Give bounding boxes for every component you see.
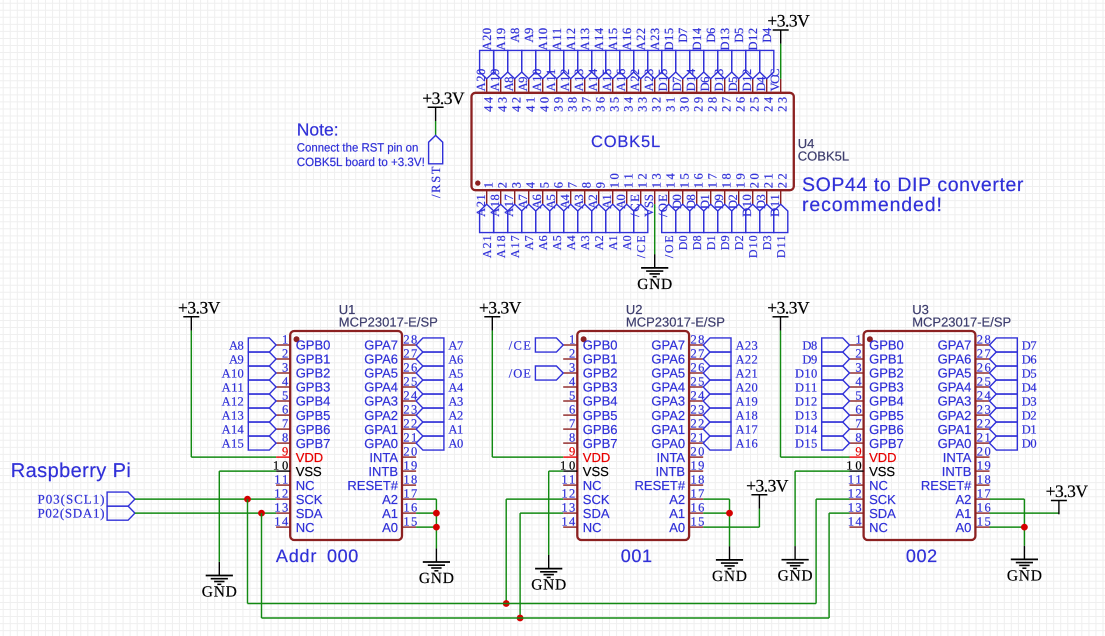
svg-text:P03(SCL1): P03(SCL1) <box>38 492 105 507</box>
svg-text:A20: A20 <box>474 69 488 92</box>
U4 pin 19 (D2) <box>738 190 740 204</box>
svg-text:GPA4: GPA4 <box>938 380 972 395</box>
U2 pin 7 (GPB6) <box>563 428 577 430</box>
svg-text:5: 5 <box>282 389 288 403</box>
U4 pin 22 (D11) <box>780 190 782 204</box>
U3 pin 14 (NC) <box>850 526 864 528</box>
ground GND at U4 pin 13 <box>654 254 656 268</box>
U4 pin 29 (D14) <box>696 79 698 93</box>
U4 pin 40 (A10) <box>542 79 544 93</box>
svg-text:GPA6: GPA6 <box>938 352 972 367</box>
wire U3 SCK drop to SCL bus <box>815 499 817 603</box>
U4 pin 16 (D8) <box>696 190 698 204</box>
ground GND at U2 A2/A1 <box>729 546 731 560</box>
svg-text:2: 2 <box>855 347 861 361</box>
svg-text:GPB5: GPB5 <box>296 408 331 423</box>
svg-text:+3.3V: +3.3V <box>178 297 221 317</box>
wire U1 A2 pin 17 <box>416 498 436 500</box>
svg-text:VSS: VSS <box>296 464 322 479</box>
net label D11 at U4 pin 22 <box>774 204 788 232</box>
svg-text:INTB: INTB <box>655 464 685 479</box>
svg-text:A19: A19 <box>488 69 502 92</box>
svg-text:+3.3V: +3.3V <box>422 88 465 108</box>
svg-text:D9: D9 <box>802 352 817 366</box>
svg-text:D1: D1 <box>698 194 712 209</box>
svg-text:GPA1: GPA1 <box>938 422 972 437</box>
svg-text:A14: A14 <box>592 27 606 50</box>
svg-text:A11: A11 <box>544 69 558 92</box>
svg-text:GPA6: GPA6 <box>651 352 685 367</box>
svg-text:A20: A20 <box>736 380 758 394</box>
svg-text:D6: D6 <box>1022 352 1037 366</box>
wire to U3 VDD pin 9 <box>781 456 850 458</box>
svg-text:20: 20 <box>691 445 705 459</box>
net label A15 at U1 pin 8 <box>248 436 276 450</box>
net label A8 at U1 pin 1 <box>248 338 276 352</box>
svg-text:1: 1 <box>481 182 495 188</box>
net label A17 at U2 pin 22 <box>703 422 731 436</box>
svg-text:Raspberry Pi: Raspberry Pi <box>11 460 131 482</box>
svg-text:A1: A1 <box>606 235 620 250</box>
svg-text:GPA6: GPA6 <box>364 352 398 367</box>
svg-text:D0: D0 <box>676 235 690 250</box>
ground GND at U3 VSS <box>794 546 796 560</box>
svg-text:25: 25 <box>977 375 991 389</box>
U3 pin 11 (NC) <box>850 484 864 486</box>
U1 pin 9 (VDD) <box>276 456 290 458</box>
svg-text:NC: NC <box>583 478 602 493</box>
net label D5 at U3 pin 26 <box>990 366 1018 380</box>
net label D15 at U3 pin 8 <box>822 436 850 450</box>
svg-text:A0: A0 <box>448 436 463 450</box>
wire +3.3V down to U1 VDD row <box>190 331 192 458</box>
svg-text:COBK5L board to +3.3V!: COBK5L board to +3.3V! <box>297 155 425 169</box>
net label A6 at U4 pin 5 <box>536 204 550 232</box>
svg-text:VDD: VDD <box>869 450 896 465</box>
U2 pin 19 (INTB) <box>689 470 703 472</box>
net label A12 at U4 pin 38 <box>564 50 578 78</box>
U2 pin 4 (GPB3) <box>563 386 577 388</box>
svg-text:A6: A6 <box>448 352 463 366</box>
svg-text:D0: D0 <box>1022 436 1037 450</box>
U4 pin 26 (D5) <box>738 79 740 93</box>
svg-text:GPB3: GPB3 <box>583 380 618 395</box>
net label /CE at U4 pin 12 <box>634 204 648 232</box>
net label A21 at U4 pin 1 <box>480 204 494 232</box>
svg-text:D15: D15 <box>662 28 676 51</box>
U4 pin 24 (D4) <box>766 79 768 93</box>
net label D14 at U3 pin 7 <box>822 422 850 436</box>
wire U2 addr GND vertical <box>729 499 731 546</box>
svg-text:D12: D12 <box>795 394 817 408</box>
svg-text:D14: D14 <box>690 27 704 50</box>
svg-text:8: 8 <box>579 182 593 188</box>
net label A1 at U4 pin 10 <box>606 204 620 232</box>
ground GND at U1 VSS <box>218 562 220 576</box>
U1 pin 11 (NC) <box>276 484 290 486</box>
U4 pin 6 (A5) <box>556 190 558 204</box>
svg-text:D2: D2 <box>726 194 740 209</box>
net label A0 at U4 pin 11 <box>620 204 634 232</box>
wire U2 SDA pin 13 <box>520 512 563 514</box>
svg-text:P02(SDA1): P02(SDA1) <box>38 506 105 521</box>
wire U3 A0 pin 15 <box>990 526 1025 528</box>
svg-text:17: 17 <box>691 487 705 501</box>
svg-text:9: 9 <box>569 445 575 459</box>
svg-text:RESET#: RESET# <box>921 478 972 493</box>
svg-text:12: 12 <box>848 487 862 501</box>
U4 pin 34 (A16) <box>626 79 628 93</box>
U2 pin 27 (GPA6) <box>689 358 703 360</box>
svg-text:20: 20 <box>977 445 991 459</box>
svg-text:GPA1: GPA1 <box>364 422 398 437</box>
svg-text:+3.3V: +3.3V <box>1046 481 1089 501</box>
U2 pin 28 (GPA7) <box>689 344 703 346</box>
U2 pin 22 (GPA1) <box>689 428 703 430</box>
svg-text:A0: A0 <box>955 520 971 535</box>
svg-text:8: 8 <box>282 431 288 445</box>
svg-text:D11: D11 <box>795 380 817 394</box>
svg-text:VSS: VSS <box>583 464 609 479</box>
svg-text:17: 17 <box>977 487 991 501</box>
svg-text:MCP23017-E/SP: MCP23017-E/SP <box>339 315 438 330</box>
net label A8 at U4 pin 42 <box>508 50 522 78</box>
U3 pin 1 marker <box>867 336 873 342</box>
svg-text:19: 19 <box>691 459 705 473</box>
U4 pin 44 (A20) <box>486 79 488 93</box>
svg-text:A9: A9 <box>229 352 244 366</box>
svg-text:A10: A10 <box>536 28 550 51</box>
net label D10 at U3 pin 3 <box>822 366 850 380</box>
svg-text:14: 14 <box>663 172 677 188</box>
svg-text:D5: D5 <box>1022 366 1037 380</box>
svg-text:GPA5: GPA5 <box>651 366 685 381</box>
svg-text:GPA0: GPA0 <box>364 436 398 451</box>
svg-text:A7: A7 <box>522 235 536 250</box>
svg-text:GPB2: GPB2 <box>583 366 618 381</box>
U4 pin 8 (A3) <box>584 190 586 204</box>
U2 pin 13 (SDA) <box>563 512 577 514</box>
svg-text:27: 27 <box>403 347 417 361</box>
svg-text:A5: A5 <box>544 194 558 209</box>
svg-text:A1: A1 <box>448 422 463 436</box>
svg-text:VSS: VSS <box>869 464 895 479</box>
U4 pin 12 (/CE) <box>640 190 642 204</box>
svg-text:6: 6 <box>551 182 565 188</box>
svg-text:SCK: SCK <box>296 492 323 507</box>
wire U3 addr GND vertical <box>1023 499 1025 546</box>
U3 pin 22 (GPA1) <box>975 428 989 430</box>
net label D15 at U4 pin 31 <box>662 50 676 78</box>
svg-text:GPA3: GPA3 <box>938 394 972 409</box>
svg-text:GPB4: GPB4 <box>583 394 618 409</box>
svg-text:16: 16 <box>691 501 705 515</box>
U2 pin 5 (GPB4) <box>563 400 577 402</box>
svg-text:A0: A0 <box>382 520 398 535</box>
net label A23 at U2 pin 28 <box>703 338 731 352</box>
svg-text:A5: A5 <box>550 235 564 250</box>
svg-text:D1: D1 <box>704 235 718 250</box>
svg-text:VDD: VDD <box>583 450 610 465</box>
U1 pin 21 (GPA0) <box>402 442 416 444</box>
svg-text:8: 8 <box>855 431 861 445</box>
svg-text:7: 7 <box>565 182 579 188</box>
svg-text:11: 11 <box>848 473 862 487</box>
svg-text:GPB3: GPB3 <box>869 380 904 395</box>
U3 pin 16 (A1) <box>975 512 989 514</box>
svg-text:D10: D10 <box>746 235 760 258</box>
svg-text:000: 000 <box>327 546 359 566</box>
svg-text:D5: D5 <box>732 28 746 43</box>
svg-text:14: 14 <box>848 515 863 529</box>
svg-text:A19: A19 <box>494 28 508 51</box>
svg-text:A21: A21 <box>480 235 494 258</box>
net label A19 at U4 pin 43 <box>494 50 508 78</box>
svg-text:11: 11 <box>561 473 575 487</box>
svg-text:A1: A1 <box>669 506 685 521</box>
svg-text:Note:: Note: <box>297 120 339 140</box>
svg-text:A11: A11 <box>550 28 564 51</box>
svg-text:A18: A18 <box>736 408 758 422</box>
U1 pin 2 (GPB1) <box>276 358 290 360</box>
U3 pin 18 (RESET#) <box>975 484 989 486</box>
svg-text:14: 14 <box>274 515 289 529</box>
U2 pin 15 (A0) <box>689 526 703 528</box>
net label A14 at U4 pin 36 <box>592 50 606 78</box>
U2 pin 2 (GPB1) <box>563 358 577 360</box>
net label A18 at U4 pin 2 <box>494 204 508 232</box>
U4 pin 14 (/OE) <box>668 190 670 204</box>
svg-text:NC: NC <box>869 520 888 535</box>
U3 pin 9 (VDD) <box>850 456 864 458</box>
U4 pin 21 (D3) <box>766 190 768 204</box>
junction SCL bus at U2 <box>503 600 510 607</box>
svg-text:GPA4: GPA4 <box>364 380 398 395</box>
net label D9 at U3 pin 2 <box>822 352 850 366</box>
junction SDA bus at U2 <box>517 615 524 622</box>
wire U3 A2 pin 17 <box>990 498 1025 500</box>
U2 pin 24 (GPA3) <box>689 400 703 402</box>
U3 pin 24 (GPA3) <box>975 400 989 402</box>
svg-text:MCP23017-E/SP: MCP23017-E/SP <box>912 315 1011 330</box>
wire SCL drop at U1 <box>247 499 249 603</box>
U1 pin 3 (GPB2) <box>276 372 290 374</box>
svg-text:5: 5 <box>569 389 575 403</box>
U4 pin 5 (A6) <box>542 190 544 204</box>
svg-text:GND: GND <box>202 583 237 600</box>
svg-text:A12: A12 <box>558 69 572 92</box>
svg-text:26: 26 <box>977 361 991 375</box>
svg-text:RESET#: RESET# <box>635 478 686 493</box>
IC U2 MCP23017 body <box>577 331 689 540</box>
U1 pin 18 (RESET#) <box>402 484 416 486</box>
svg-text:D14: D14 <box>795 422 818 436</box>
svg-text:/CE: /CE <box>509 338 532 352</box>
svg-text:A3: A3 <box>572 194 586 209</box>
svg-text:A10: A10 <box>530 69 544 92</box>
net label D10 at U4 pin 20 <box>746 204 760 232</box>
svg-text:15: 15 <box>403 515 417 529</box>
net label A10 at U4 pin 40 <box>536 50 550 78</box>
svg-text:26: 26 <box>691 361 705 375</box>
svg-text:A22: A22 <box>736 352 758 366</box>
svg-text:A15: A15 <box>600 69 614 92</box>
svg-text:/OE: /OE <box>509 366 532 380</box>
svg-text:A1: A1 <box>600 194 614 209</box>
wire U2 VSS pin 10 left <box>549 470 564 472</box>
svg-text:25: 25 <box>691 375 705 389</box>
U3 pin 3 (GPB2) <box>850 372 864 374</box>
svg-text:002: 002 <box>906 546 938 566</box>
net label D6 at U3 pin 27 <box>990 352 1018 366</box>
svg-text:A17: A17 <box>508 235 522 258</box>
svg-text:5: 5 <box>537 182 551 188</box>
svg-text:A11: A11 <box>222 380 244 394</box>
IC U4 COBK5L body <box>472 93 794 190</box>
wire U3 A1 pin 16 <box>990 512 1059 514</box>
svg-text:23: 23 <box>691 403 705 417</box>
svg-text:GPB2: GPB2 <box>869 366 904 381</box>
svg-text:2: 2 <box>495 182 509 188</box>
ground GND at U2 VSS <box>548 555 550 569</box>
svg-text:+3.3V: +3.3V <box>479 297 522 317</box>
net label D9 at U4 pin 18 <box>718 204 732 232</box>
U4 pin 3 (A17) <box>514 190 516 204</box>
net label D8 at U3 pin 1 <box>822 338 850 352</box>
net label A19 at U2 pin 24 <box>703 394 731 408</box>
net label A3 at U4 pin 8 <box>578 204 592 232</box>
wire U3 SDA drop to SDA bus <box>828 513 830 618</box>
svg-text:GPB6: GPB6 <box>296 422 331 437</box>
U2 pin 8 (GPB7) <box>563 442 577 444</box>
svg-text:27: 27 <box>977 347 991 361</box>
U4 pin 30 (D7) <box>682 79 684 93</box>
U1 pin 10 (VSS) <box>276 470 290 472</box>
svg-text:GPA2: GPA2 <box>364 408 398 423</box>
svg-text:SDA: SDA <box>869 506 896 521</box>
net label D6 at U4 pin 28 <box>704 50 718 78</box>
net label A15 at U4 pin 35 <box>606 50 620 78</box>
U4 pin 20 (D10) <box>752 190 754 204</box>
net label D7 at U3 pin 28 <box>990 338 1018 352</box>
U4 pin 17 (D1) <box>710 190 712 204</box>
U4 pin 18 (D9) <box>724 190 726 204</box>
net label A16 at U4 pin 34 <box>620 50 634 78</box>
svg-text:14: 14 <box>561 515 576 529</box>
wire U3 SCK pin 12 <box>816 498 849 500</box>
U1 pin 4 (GPB3) <box>276 386 290 388</box>
svg-text:GPB0: GPB0 <box>583 338 618 353</box>
junction U1 A0 <box>433 524 440 531</box>
net label D13 at U3 pin 6 <box>822 408 850 422</box>
svg-text:GPB1: GPB1 <box>296 352 331 367</box>
svg-text:D15: D15 <box>656 69 670 92</box>
svg-text:A6: A6 <box>536 235 550 250</box>
svg-text:A20: A20 <box>480 28 494 51</box>
wire U3 SDA pin 13 <box>829 512 849 514</box>
U1 pin 13 (SDA) <box>276 512 290 514</box>
net label A6 at U1 pin 27 <box>416 352 444 366</box>
svg-text:A22: A22 <box>634 28 648 51</box>
svg-text:A2: A2 <box>955 492 971 507</box>
svg-text:Addr: Addr <box>276 546 317 566</box>
wire +3.3V down to U2 VDD row <box>491 331 493 458</box>
U3 pin 6 (GPB5) <box>850 414 864 416</box>
wire U3 VSS down to GND <box>794 471 796 546</box>
net label D5 at U4 pin 26 <box>732 50 746 78</box>
ground GND at U1 A2/A1/A0 <box>435 548 437 562</box>
svg-text:A1: A1 <box>955 506 971 521</box>
wire SDA drop at U1 <box>261 513 263 618</box>
svg-text:A2: A2 <box>586 194 600 209</box>
net label D1 at U4 pin 17 <box>704 204 718 232</box>
svg-text:GPB1: GPB1 <box>583 352 618 367</box>
svg-text:recommended!: recommended! <box>802 194 943 216</box>
U4 pin 32 (A23) <box>654 79 656 93</box>
U1 pin 27 (GPA6) <box>402 358 416 360</box>
svg-text:A0: A0 <box>614 194 628 209</box>
wire U2 A1 pin 16 <box>703 512 729 514</box>
svg-text:A2: A2 <box>669 492 685 507</box>
svg-text:D9: D9 <box>712 194 726 209</box>
wire U1 VSS pin 10 left <box>219 470 276 472</box>
svg-text:13: 13 <box>274 501 288 515</box>
U1 pin 7 (GPB6) <box>276 428 290 430</box>
wire U2 A0 up to +3.3V <box>758 509 760 527</box>
U2 pin 3 (GPB2) <box>563 372 577 374</box>
svg-text:GND: GND <box>531 577 566 594</box>
net label D4 at U4 pin 24 <box>760 50 774 78</box>
svg-text:A4: A4 <box>558 193 572 209</box>
svg-text:A2: A2 <box>448 408 463 422</box>
svg-text:GPB4: GPB4 <box>869 394 904 409</box>
net label D14 at U4 pin 29 <box>690 50 704 78</box>
svg-text:1: 1 <box>569 333 575 347</box>
junction U2 A1 <box>726 510 733 517</box>
svg-text:D13: D13 <box>795 408 817 422</box>
svg-text:D13: D13 <box>718 28 732 51</box>
net label /CE at U2 pin 1 <box>535 338 563 352</box>
net label D7 at U4 pin 30 <box>676 50 690 78</box>
net label D2 at U4 pin 19 <box>732 204 746 232</box>
IC U3 MCP23017 body <box>864 331 976 540</box>
svg-text:NC: NC <box>869 478 888 493</box>
svg-text:18: 18 <box>691 473 705 487</box>
U1 pin 14 (NC) <box>276 526 290 528</box>
U3 pin 17 (A2) <box>975 498 989 500</box>
svg-text:27: 27 <box>691 347 705 361</box>
wire to U1 VDD pin 9 <box>191 456 276 458</box>
svg-text:GPB5: GPB5 <box>869 408 904 423</box>
U3 pin 1 (GPB0) <box>850 344 864 346</box>
net label A21 at U2 pin 26 <box>703 366 731 380</box>
U1 pin 25 (GPA4) <box>402 386 416 388</box>
svg-text:18: 18 <box>403 473 417 487</box>
U1 pin 6 (GPB5) <box>276 414 290 416</box>
svg-text:GPA3: GPA3 <box>364 394 398 409</box>
net label A14 at U1 pin 7 <box>248 422 276 436</box>
svg-text:A12: A12 <box>222 394 244 408</box>
U2 pin 26 (GPA5) <box>689 372 703 374</box>
U1 pin 24 (GPA3) <box>402 400 416 402</box>
net label D12 at U4 pin 25 <box>746 50 760 78</box>
svg-text:A17: A17 <box>736 422 758 436</box>
U4 pin 41 (A9) <box>528 79 530 93</box>
U4 pin 2 (A18) <box>500 190 502 204</box>
net label A13 at U1 pin 6 <box>248 408 276 422</box>
net label D8 at U4 pin 16 <box>690 204 704 232</box>
U2 pin 16 (A1) <box>689 512 703 514</box>
